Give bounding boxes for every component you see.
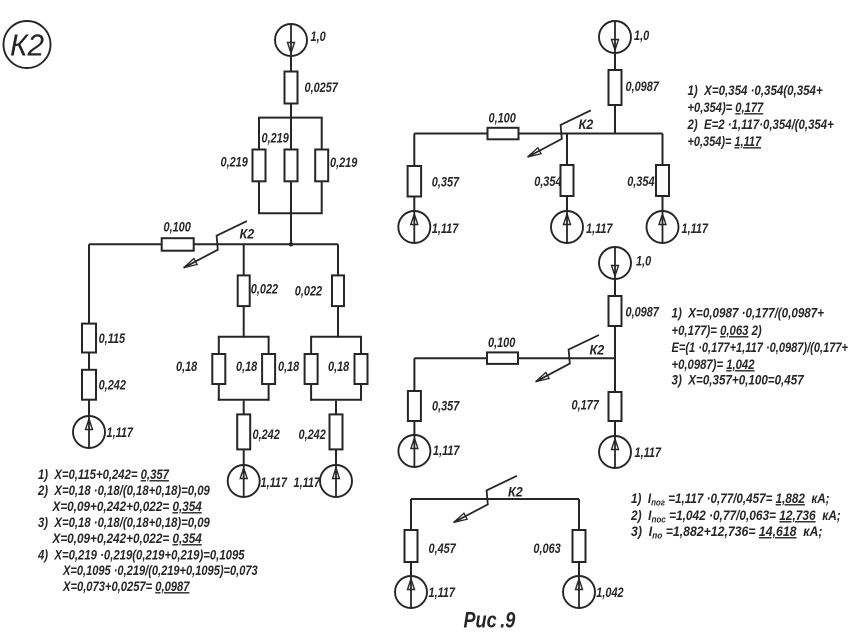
svg-text:X=0,09+0,242+0,022= 0,354: X=0,09+0,242+0,022= 0,354 [52, 530, 202, 546]
reactance X=0,242 (far left branch) [82, 370, 96, 400]
wire top bar of parallel pair B [310, 336, 362, 338]
wire [268, 384, 270, 401]
svg-text:2) X=0,18 ·0,18/(0,18+0,18)=0: 2) X=0,18 ·0,18/(0,18+0,18)=0,09 [37, 482, 211, 498]
reactance X=0,18 (pair B left) [305, 354, 318, 384]
reactance X=0,18 (pair B right) [355, 354, 368, 384]
node K2 fault-point marker circle [4, 21, 51, 68]
reactance X=0,219 (middle of triple) [285, 150, 298, 182]
svg-text:X=0,073+0,0257= 0,0987: X=0,073+0,0257= 0,0987 [62, 579, 190, 594]
wire [243, 244, 245, 275]
calculation text block (left) [37, 466, 258, 595]
wire [321, 118, 323, 150]
reactance X=0,18 (pair A left) [212, 354, 225, 384]
fault arrow K2 (top right) [528, 110, 591, 157]
svg-text:0,115: 0,115 [99, 331, 126, 347]
wire [662, 196, 664, 211]
svg-text:Рис .9: Рис .9 [464, 609, 517, 631]
wire [290, 213, 292, 244]
svg-text:1,117: 1,117 [432, 221, 459, 237]
wire [614, 326, 616, 392]
wire [566, 196, 568, 211]
svg-text:К2: К2 [508, 484, 523, 500]
svg-text:4) X=0,219 ·0,219(0,219+0,219: 4) X=0,219 ·0,219(0,219+0,219)=0,1095 [37, 546, 245, 562]
wire [88, 400, 90, 416]
fault arrow K2 (bottom) [454, 476, 517, 523]
svg-text:К2: К2 [579, 116, 594, 132]
svg-text:0,242: 0,242 [99, 377, 126, 393]
svg-text:0,242: 0,242 [299, 427, 326, 443]
generator source 1,0 (middle right) [599, 247, 631, 279]
svg-text:К2: К2 [240, 226, 255, 242]
svg-text:1,117: 1,117 [635, 445, 662, 461]
wire [335, 449, 337, 465]
wire [337, 306, 339, 338]
svg-text:1,117: 1,117 [107, 425, 134, 441]
svg-text:+0,354)= 1,117: +0,354)= 1,117 [688, 134, 762, 150]
wire [290, 181, 292, 213]
wire [413, 197, 415, 212]
reactance X=0,100 (left tie line) [162, 238, 194, 251]
reactance X=0,177 [609, 392, 622, 421]
wire [337, 244, 339, 275]
wire [243, 401, 245, 415]
svg-text:0,354: 0,354 [534, 174, 561, 190]
wire [290, 104, 292, 119]
svg-text:1,117: 1,117 [429, 585, 456, 601]
reactance X=0,100 (top right tie) [488, 128, 519, 140]
wire [88, 244, 90, 323]
wire [578, 499, 580, 530]
calculation text block (bottom right) [630, 490, 841, 541]
svg-text:0,18: 0,18 [176, 359, 197, 375]
svg-text:К2: К2 [10, 28, 44, 63]
wire [614, 53, 616, 70]
wire [614, 105, 616, 134]
svg-text:0,357: 0,357 [432, 398, 460, 414]
reactance X=0,357 (top right, left branch) [408, 166, 422, 197]
generator source 1,117 (far left) [73, 416, 105, 448]
reactance X=0,242 (branch B) [330, 414, 343, 449]
wire [88, 353, 90, 370]
svg-text:0,0987: 0,0987 [626, 79, 660, 95]
svg-text:E=(1 ·0,177+1,117 ·0,0987)/(0,: E=(1 ·0,177+1,117 ·0,0987)/(0,177+ [672, 340, 849, 356]
wire [410, 562, 412, 576]
wire [310, 384, 312, 401]
wire [290, 56, 292, 72]
generator source 1,117 (bottom left) [395, 576, 427, 608]
reactance X=0,0257 [285, 72, 298, 104]
wire [258, 118, 260, 150]
svg-text:0,063: 0,063 [533, 541, 560, 557]
wire [310, 337, 312, 354]
wire [218, 384, 220, 401]
generator source 1,117 (top right, left) [398, 211, 430, 243]
wire [566, 134, 568, 166]
svg-text:1) X=0,115+0,242= 0,357: 1) X=0,115+0,242= 0,357 [38, 466, 170, 482]
svg-text:0,100: 0,100 [489, 110, 516, 126]
generator source 1,117 (branch A) [228, 465, 260, 497]
wire main horizontal bus of left circuit [89, 243, 338, 245]
reactance X=0,354 (right branch) [656, 165, 669, 196]
reactance X=0,115 [82, 324, 96, 353]
svg-text:1,0: 1,0 [311, 29, 326, 45]
generator source 1,117 (middle right, left) [398, 435, 430, 467]
generator source 1,0 (top right) [599, 21, 631, 53]
svg-text:1,042: 1,042 [596, 585, 623, 601]
wire [321, 181, 323, 213]
svg-text:1) X=0,354 ·0,354(0,354+: 1) X=0,354 ·0,354(0,354+ [688, 82, 824, 98]
wire [413, 358, 415, 391]
svg-text:0,18: 0,18 [236, 359, 257, 375]
svg-text:0,177: 0,177 [572, 397, 600, 413]
svg-text:3) X=0,18 ·0,18/(0,18+0,18)=0: 3) X=0,18 ·0,18/(0,18+0,18)=0,09 [38, 514, 211, 530]
svg-text:0,0987: 0,0987 [626, 304, 660, 320]
reactance X=0,219 (right of triple) [315, 150, 328, 182]
svg-text:3) X=0,357+0,100=0,457: 3) X=0,357+0,100=0,457 [672, 371, 805, 387]
svg-text:X=0,1095 ·0,219/(0,219+0,1095): X=0,1095 ·0,219/(0,219+0,1095)=0,073 [62, 563, 258, 579]
wire [360, 384, 362, 401]
svg-text:1) X=0,0987 ·0,177/(0,0987+: 1) X=0,0987 ·0,177/(0,0987+ [672, 304, 825, 320]
svg-text:0,022: 0,022 [295, 283, 322, 299]
svg-text:X=0,09+0,242+0,022= 0,354: X=0,09+0,242+0,022= 0,354 [52, 498, 202, 514]
reactance X=0,022 (right) [332, 275, 344, 306]
svg-text:2) E=2 ·1,117·0,354/(0,354+: 2) E=2 ·1,117·0,354/(0,354+ [687, 116, 835, 132]
wire [662, 134, 664, 166]
svg-text:0,354: 0,354 [627, 174, 654, 190]
wire top bar of parallel pair A [218, 336, 270, 338]
svg-text:+0,177)= 0,063 2): +0,177)= 0,063 2) [672, 322, 762, 338]
wire [413, 134, 415, 167]
reactance X=0,354 (middle branch) [561, 165, 574, 196]
svg-text:+0,354)= 0,177: +0,354)= 0,177 [688, 100, 765, 115]
wire bottom bus of triple parallel group [258, 212, 323, 214]
svg-text:1,117: 1,117 [586, 221, 613, 237]
wire [614, 421, 616, 436]
wire bottom bar of parallel pair A [218, 399, 270, 401]
svg-text:1,117: 1,117 [433, 443, 460, 459]
wire [218, 337, 220, 354]
wire [614, 279, 616, 296]
reactance X=0,357 (middle right, left branch) [408, 391, 421, 421]
svg-text:0,18: 0,18 [328, 359, 349, 375]
wire top bus of triple parallel group [258, 117, 323, 119]
reactance X=0,063 [573, 530, 586, 562]
reactance X=0,100 (middle right tie) [487, 352, 518, 364]
svg-text:0,0257: 0,0257 [305, 80, 339, 96]
generator source E=1,0 (left system) [275, 24, 307, 56]
node junction dot [289, 242, 293, 246]
wire [268, 337, 270, 354]
generator source 1,042 (bottom right) [563, 576, 595, 608]
fault arrow K2 (left circuit) [184, 221, 247, 268]
svg-text:0,457: 0,457 [429, 541, 457, 557]
wire [243, 449, 245, 465]
reactance X=0,022 (left) [238, 275, 250, 306]
calculation text block (middle right) [672, 304, 849, 387]
svg-text:0,100: 0,100 [164, 219, 191, 235]
wire horizontal bus (bottom circuit) [411, 498, 579, 500]
svg-text:0,219: 0,219 [221, 154, 248, 170]
svg-text:0,100: 0,100 [488, 335, 515, 351]
svg-text:1,117: 1,117 [682, 221, 709, 237]
wire [243, 306, 245, 338]
svg-text:К2: К2 [590, 342, 605, 358]
calculation text block (top right) [687, 82, 835, 149]
reactance X=0,0987 (middle right) [609, 296, 622, 326]
svg-text:0,357: 0,357 [432, 174, 460, 190]
reactance X=0,0987 (top right) [609, 70, 622, 105]
reactance X=0,242 (branch A) [237, 414, 250, 449]
wire horizontal bus (top right circuit) [414, 133, 662, 135]
svg-text:1,0: 1,0 [636, 253, 651, 269]
svg-text:0,219: 0,219 [262, 130, 289, 146]
wire [335, 401, 337, 415]
svg-text:1,0: 1,0 [634, 28, 649, 44]
svg-text:0,242: 0,242 [253, 427, 280, 443]
reactance X=0,219 (left of triple) [253, 150, 266, 182]
wire [360, 337, 362, 354]
wire [290, 118, 292, 150]
wire horizontal bus (middle right circuit) [414, 357, 615, 359]
generator source 1,117 (middle right bottom) [599, 436, 631, 468]
reactance X=0,18 (pair A right) [262, 354, 275, 384]
wire bottom bar of parallel pair B [310, 399, 362, 401]
svg-text:+0,0987)= 1,042: +0,0987)= 1,042 [672, 356, 755, 373]
svg-text:0,022: 0,022 [251, 281, 278, 297]
generator source 1,117 (right) [647, 211, 679, 243]
svg-text:1,117: 1,117 [294, 475, 321, 491]
svg-text:1,117: 1,117 [261, 475, 288, 491]
svg-text:0,219: 0,219 [330, 155, 357, 171]
wire [413, 421, 415, 435]
wire [410, 499, 412, 530]
fault arrow K2 (middle right) [536, 335, 599, 382]
wire [258, 181, 260, 213]
generator source 1,117 (branch B) [320, 465, 352, 497]
reactance X=0,457 [405, 530, 418, 562]
wire [578, 562, 580, 576]
svg-text:0,18: 0,18 [278, 359, 299, 375]
generator source 1,117 (middle) [551, 211, 583, 243]
